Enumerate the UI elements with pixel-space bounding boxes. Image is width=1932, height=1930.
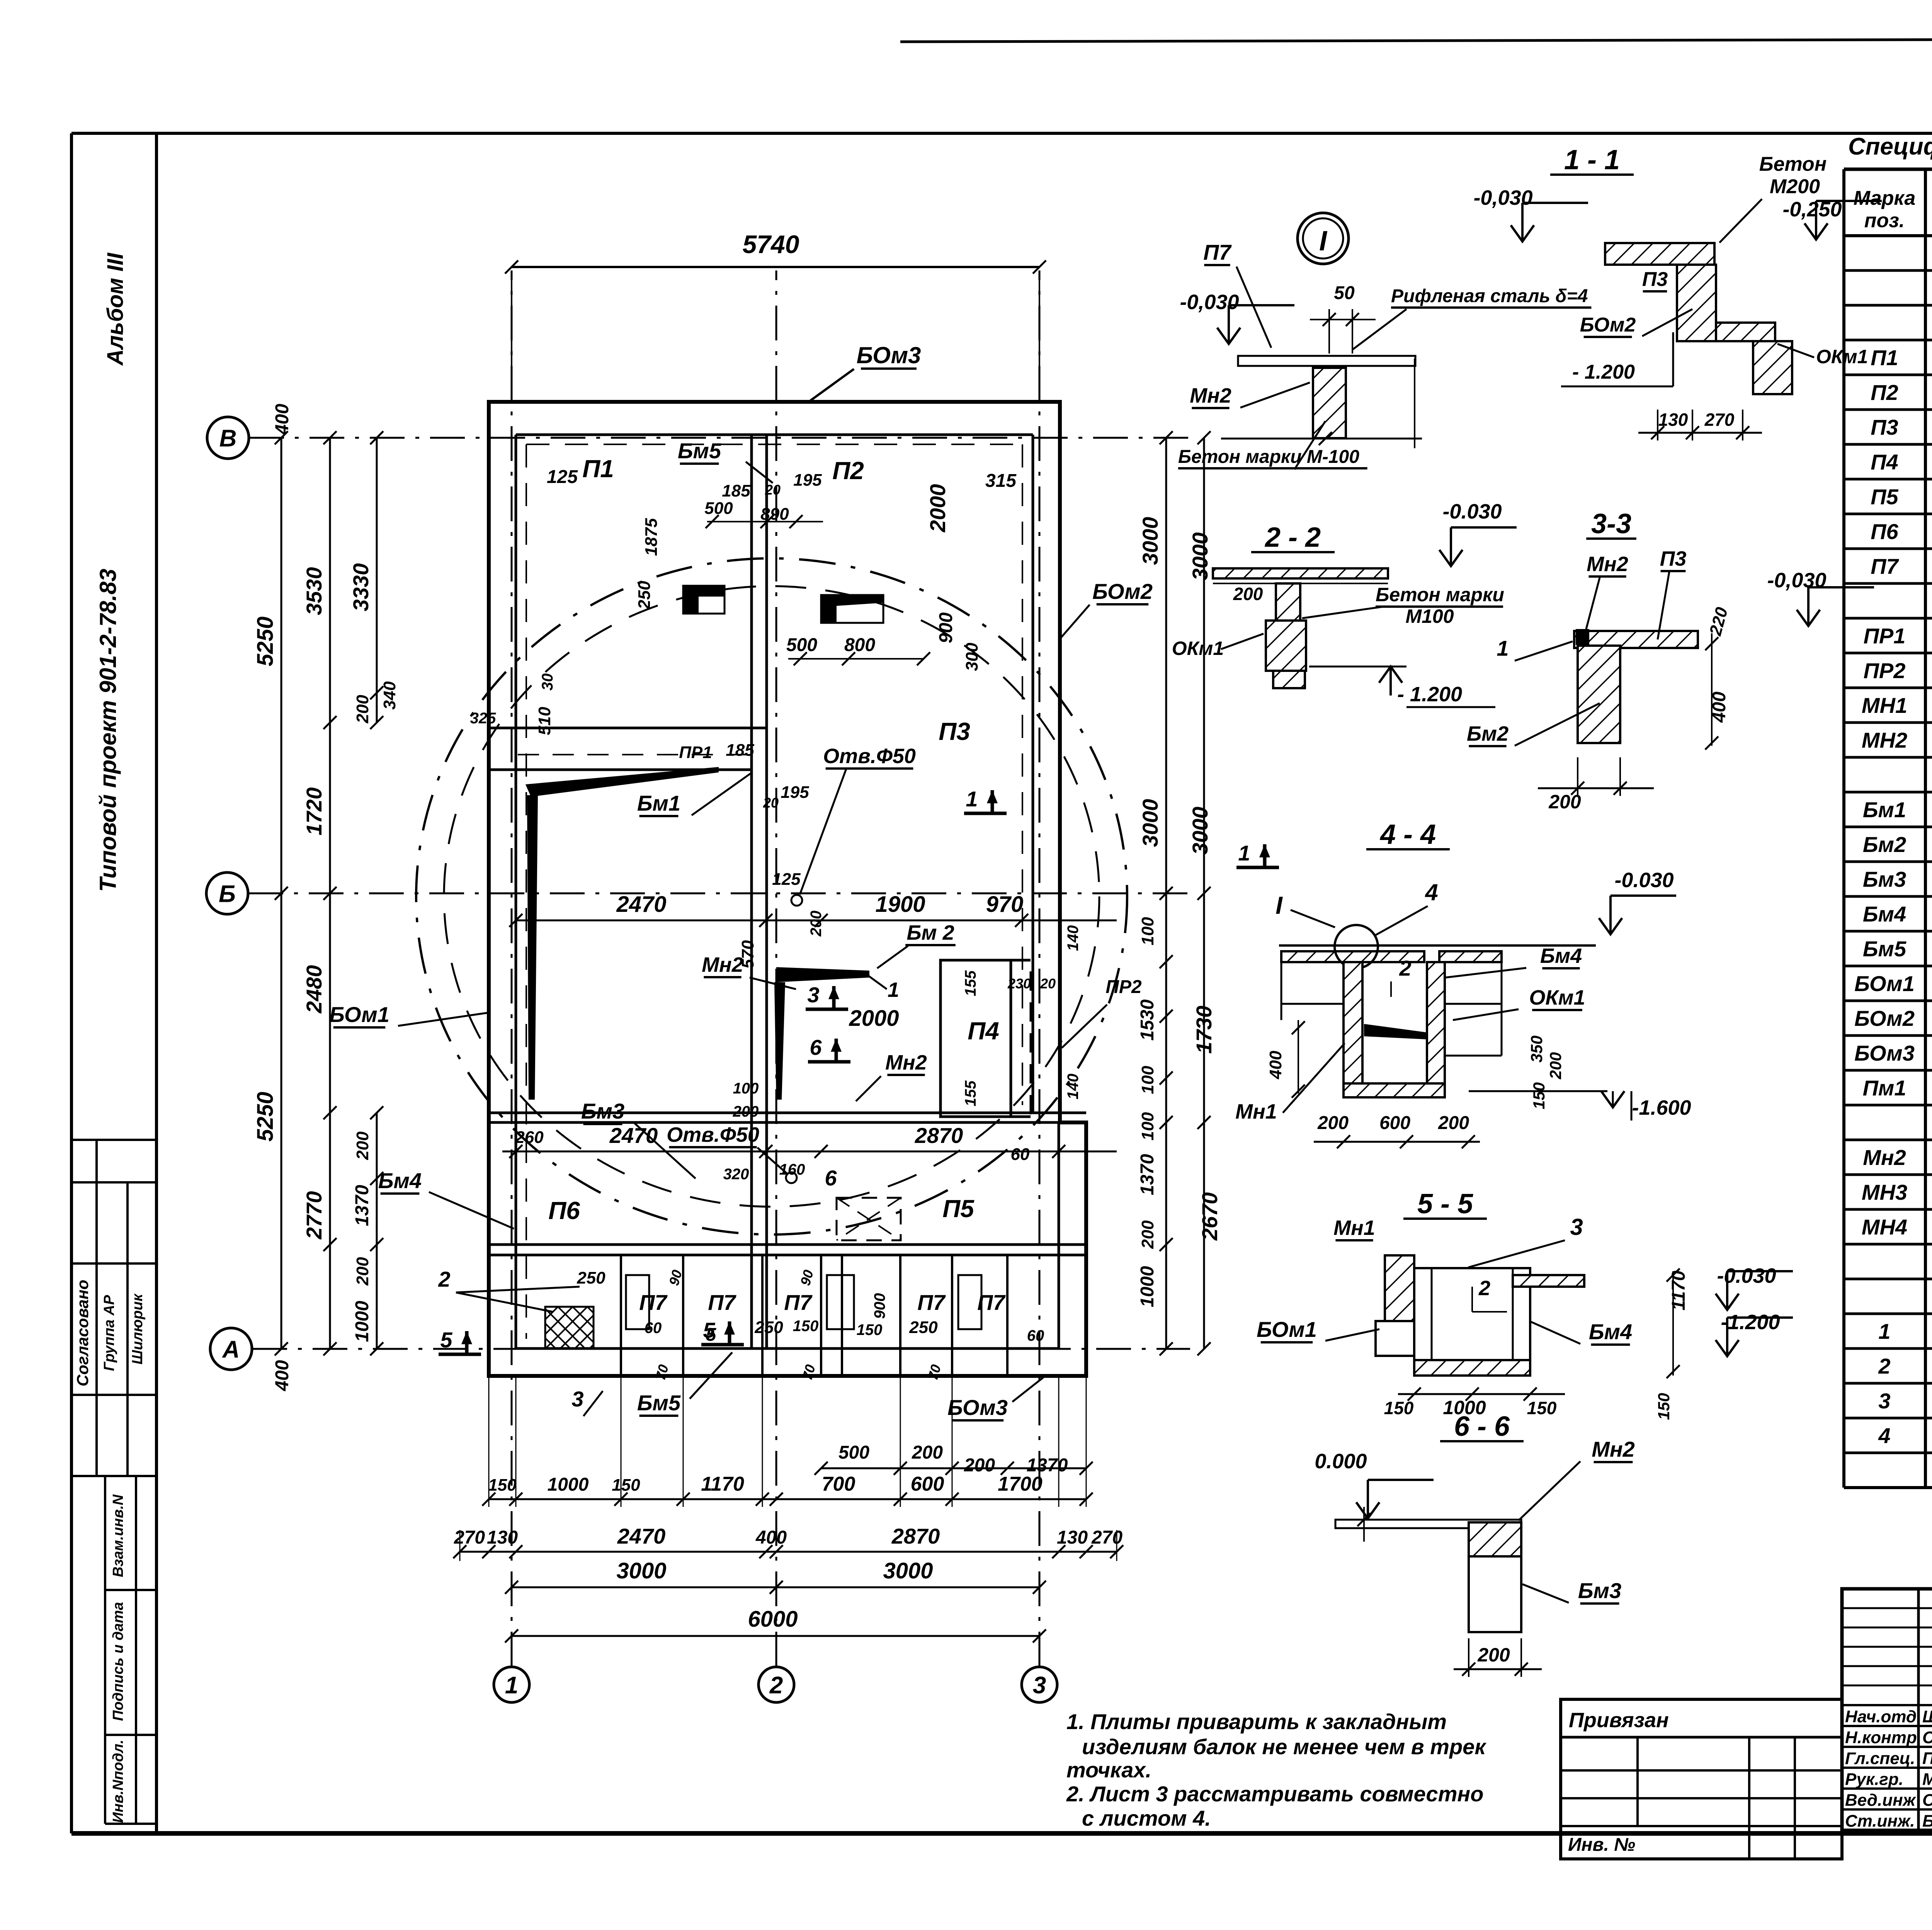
svg-text:350: 350 xyxy=(1527,1036,1546,1063)
svg-text:900: 900 xyxy=(871,1293,888,1319)
small dim line under detail P2 xyxy=(788,658,923,660)
section 6-6 column xyxy=(1469,1556,1521,1632)
outer wall outline xyxy=(489,402,1086,1376)
svg-text:МН2: МН2 xyxy=(1862,728,1907,752)
svg-text:900: 900 xyxy=(936,612,956,643)
svg-text:МН4: МН4 xyxy=(1862,1215,1907,1239)
svg-text:2: 2 xyxy=(438,1267,450,1291)
svg-text:2480: 2480 xyxy=(302,965,326,1014)
svg-text:П7: П7 xyxy=(977,1290,1006,1314)
svg-text:Подпись и дата: Подпись и дата xyxy=(110,1602,126,1721)
svg-text:2: 2 xyxy=(1399,956,1411,980)
svg-text:270: 270 xyxy=(1091,1527,1122,1548)
-1.600 level xyxy=(1469,1090,1607,1092)
svg-text:П4: П4 xyxy=(1871,450,1898,474)
svg-text:Бм4: Бм4 xyxy=(1540,944,1582,968)
svg-text:П2: П2 xyxy=(832,457,864,485)
elevation mark -0,030 xyxy=(1797,610,1820,626)
svg-text:3330: 3330 xyxy=(349,563,373,612)
svg-text:3: 3 xyxy=(1878,1389,1890,1413)
svg-text:200: 200 xyxy=(1138,1220,1157,1249)
solid black beam Bm1 (horizontal wedge) xyxy=(526,767,719,797)
svg-text:Мн2: Мн2 xyxy=(1592,1437,1635,1461)
svg-text:140: 140 xyxy=(1065,925,1082,951)
corridor wall xyxy=(489,1243,1086,1246)
svg-text:БОм3: БОм3 xyxy=(1854,1041,1915,1065)
svg-text:I: I xyxy=(1319,226,1328,257)
svg-text:100: 100 xyxy=(1138,917,1157,945)
svg-text:1370: 1370 xyxy=(352,1185,372,1226)
dims 200 600 200 xyxy=(1314,1141,1480,1143)
axis 2 xyxy=(759,1667,794,1702)
svg-text:500: 500 xyxy=(838,1442,869,1463)
svg-text:200: 200 xyxy=(1548,791,1581,813)
section 4-4 bottom xyxy=(1344,1083,1445,1097)
svg-text:М200: М200 xyxy=(1770,175,1820,198)
wall mid band xyxy=(489,1112,1086,1114)
svg-text:Бетон марки М-100: Бетон марки М-100 xyxy=(1178,447,1359,467)
section 4-4 channel walls xyxy=(1344,962,1362,1083)
svg-text:Бетон: Бетон xyxy=(1759,153,1827,175)
elevation mark -0,030 xyxy=(1511,225,1534,241)
svg-text:970: 970 xyxy=(986,892,1024,917)
svg-text:250: 250 xyxy=(577,1269,605,1287)
svg-text:Бм5: Бм5 xyxy=(678,439,721,463)
svg-text:1875: 1875 xyxy=(642,518,661,556)
svg-text:195: 195 xyxy=(793,471,822,490)
svg-text:60: 60 xyxy=(1027,1327,1044,1344)
svg-text:6 - 6: 6 - 6 xyxy=(1454,1411,1510,1442)
slab of node I xyxy=(1238,356,1415,366)
section 6-6 hatched block xyxy=(1469,1522,1521,1556)
page top scan edge xyxy=(900,39,1932,42)
svg-text:2 - 2: 2 - 2 xyxy=(1264,522,1321,553)
svg-text:П6: П6 xyxy=(1871,519,1898,544)
svg-text:Бм2: Бм2 xyxy=(1467,722,1509,745)
section 2-2 slab xyxy=(1213,568,1388,578)
svg-text:6: 6 xyxy=(810,1035,822,1059)
svg-text:Бм4: Бм4 xyxy=(378,1168,422,1193)
svg-text:поз.: поз. xyxy=(1864,209,1905,232)
svg-text:Бм4: Бм4 xyxy=(1863,902,1906,926)
svg-text:МН1: МН1 xyxy=(1862,693,1907,718)
svg-text:500: 500 xyxy=(704,499,733,518)
svg-text:Мн1: Мн1 xyxy=(1235,1100,1277,1123)
svg-text:60: 60 xyxy=(645,1320,662,1337)
svg-text:П7: П7 xyxy=(917,1290,946,1314)
svg-text:2470: 2470 xyxy=(609,1123,658,1148)
elevation mark -0.030 xyxy=(1439,550,1463,566)
dashed X niche in room P5 xyxy=(837,1198,901,1240)
svg-text:точках.: точках. xyxy=(1066,1758,1151,1782)
cross hatched pit in lower left xyxy=(545,1307,594,1348)
svg-text:-0,030: -0,030 xyxy=(1180,291,1239,314)
svg-text:Бм5: Бм5 xyxy=(637,1391,681,1415)
svg-text:200: 200 xyxy=(964,1455,995,1476)
section 4-4 circle marker xyxy=(1335,925,1378,968)
svg-text:Болотинская: Болотинская xyxy=(1922,1811,1932,1830)
svg-text:100: 100 xyxy=(1138,1066,1157,1094)
svg-text:890: 890 xyxy=(760,505,789,524)
big dashed circles (round station) xyxy=(416,558,1127,1235)
svg-text:4: 4 xyxy=(1878,1423,1890,1448)
svg-text:Бм 2: Бм 2 xyxy=(906,921,954,944)
svg-text:150: 150 xyxy=(1384,1398,1414,1418)
extension lines to bottom dims xyxy=(488,1376,490,1507)
svg-text:П3: П3 xyxy=(1642,268,1668,291)
svg-text:150: 150 xyxy=(488,1476,517,1495)
svg-text:260: 260 xyxy=(515,1128,544,1147)
interior dim line mid corridor xyxy=(502,1151,1117,1153)
svg-text:1. Плиты приварить к заклад: 1. Плиты приварить к закладныт xyxy=(1066,1709,1447,1734)
svg-text:П4: П4 xyxy=(968,1017,999,1045)
svg-text:П5: П5 xyxy=(1871,485,1898,509)
svg-text:600: 600 xyxy=(1379,1113,1410,1133)
svg-text:4: 4 xyxy=(1425,879,1438,905)
svg-text:Спецификация к схеме распол: Спецификация к схеме расположения плит п… xyxy=(1848,133,1932,160)
svg-text:1720: 1720 xyxy=(302,787,326,836)
section 5-5 right slab xyxy=(1513,1275,1584,1287)
svg-text:Рифленая сталь δ=4: Рифленая сталь δ=4 xyxy=(1391,286,1588,306)
svg-text:БОм3: БОм3 xyxy=(947,1395,1008,1420)
svg-text:Вед.инж: Вед.инж xyxy=(1845,1791,1917,1809)
svg-text:1370: 1370 xyxy=(1137,1154,1158,1195)
svg-text:П2: П2 xyxy=(1871,380,1898,405)
svg-text:195: 195 xyxy=(781,783,809,802)
svg-text:П3: П3 xyxy=(1871,415,1898,439)
inner wall lines xyxy=(516,434,1033,436)
svg-text:Альбом III: Альбом III xyxy=(103,252,128,366)
svg-text:А: А xyxy=(222,1336,240,1363)
svg-text:Мн2: Мн2 xyxy=(1863,1145,1906,1170)
svg-text:3000: 3000 xyxy=(1138,799,1162,847)
solid black beam Bm3 (vertical wedge) xyxy=(527,795,538,1100)
svg-text:Бм3: Бм3 xyxy=(1863,867,1906,891)
svg-text:20: 20 xyxy=(763,795,779,811)
black L detail in room P1 (Bm5) xyxy=(683,586,724,614)
svg-text:-0,250: -0,250 xyxy=(1782,198,1842,221)
svg-text:-1.600: -1.600 xyxy=(1632,1096,1691,1119)
svg-text:Сокольская: Сокольская xyxy=(1922,1728,1932,1747)
svg-text:П7: П7 xyxy=(708,1290,736,1314)
svg-text:-0.030: -0.030 xyxy=(1717,1264,1776,1287)
svg-text:- 1.200: - 1.200 xyxy=(1572,361,1635,383)
elevation mark -1.200 xyxy=(1716,1340,1739,1356)
svg-text:5740: 5740 xyxy=(743,230,799,258)
svg-text:5250: 5250 xyxy=(253,616,278,666)
svg-text:Бм5: Бм5 xyxy=(1863,937,1906,961)
svg-text:Нач.отд: Нач.отд xyxy=(1845,1707,1917,1726)
svg-text:6000: 6000 xyxy=(748,1607,798,1632)
svg-text:1: 1 xyxy=(505,1672,518,1699)
elevation mark -0.030 xyxy=(1716,1294,1739,1310)
svg-text:500: 500 xyxy=(786,635,817,655)
svg-text:200: 200 xyxy=(353,695,372,724)
svg-text:2: 2 xyxy=(1478,1277,1490,1300)
svg-text:50: 50 xyxy=(1334,283,1355,303)
section 5-5 left block xyxy=(1385,1255,1414,1321)
svg-text:270: 270 xyxy=(454,1527,485,1548)
svg-text:2870: 2870 xyxy=(915,1123,963,1148)
svg-text:Бм1: Бм1 xyxy=(637,791,680,815)
svg-text:Б: Б xyxy=(219,881,236,907)
svg-text:320: 320 xyxy=(723,1166,749,1183)
svg-text:-0,030: -0,030 xyxy=(1767,569,1826,592)
svg-text:Отв.Ф50: Отв.Ф50 xyxy=(823,745,916,768)
svg-text:Гл.спец.: Гл.спец. xyxy=(1845,1749,1915,1768)
P4 box xyxy=(940,960,1011,1117)
svg-text:400: 400 xyxy=(1266,1051,1285,1080)
svg-text:2670: 2670 xyxy=(1197,1192,1222,1241)
hatched column of node I xyxy=(1313,368,1346,438)
svg-text:200: 200 xyxy=(733,1103,759,1120)
svg-text:изделиям балок не менее че: изделиям балок не менее чем в трек xyxy=(1082,1734,1486,1759)
svg-text:П1: П1 xyxy=(1871,345,1898,370)
svg-text:1530: 1530 xyxy=(1137,999,1158,1041)
svg-text:БОм3: БОм3 xyxy=(857,342,921,368)
svg-text:200: 200 xyxy=(808,911,825,937)
svg-text:БОм1: БОм1 xyxy=(1854,971,1915,996)
svg-text:Инв.Nподл.: Инв.Nподл. xyxy=(110,1740,126,1823)
svg-text:Мн2: Мн2 xyxy=(885,1051,927,1074)
top dimension 5740 xyxy=(512,266,1039,268)
svg-text:ПР1: ПР1 xyxy=(679,743,712,762)
svg-text:200: 200 xyxy=(353,1131,372,1160)
solid black vertical below Bm2 xyxy=(774,982,785,1100)
svg-text:ОКм1: ОКм1 xyxy=(1529,986,1585,1009)
svg-text:с листом 4.: с листом 4. xyxy=(1082,1806,1211,1830)
svg-text:Инв. №: Инв. № xyxy=(1568,1835,1635,1855)
axis B (top) xyxy=(207,417,249,459)
svg-text:60: 60 xyxy=(1011,1145,1030,1164)
svg-text:- 1.200: - 1.200 xyxy=(1397,683,1462,706)
lower P7 room dividers xyxy=(620,1255,622,1376)
svg-text:-1.200: -1.200 xyxy=(1721,1311,1780,1334)
svg-text:185: 185 xyxy=(726,741,754,760)
elevation mark -0.030 xyxy=(1599,918,1622,934)
section 4-4 top level line xyxy=(1279,944,1596,947)
svg-text:В: В xyxy=(219,425,237,452)
elevation mark -0,250 xyxy=(1804,223,1828,240)
svg-text:250: 250 xyxy=(909,1318,938,1337)
svg-text:600: 600 xyxy=(911,1473,944,1495)
svg-text:150: 150 xyxy=(793,1318,819,1335)
svg-text:2870: 2870 xyxy=(891,1524,940,1548)
axis 3 xyxy=(1022,1667,1057,1702)
section 5-5 channel xyxy=(1414,1268,1530,1376)
svg-text:340: 340 xyxy=(380,681,399,710)
svg-text:1: 1 xyxy=(1878,1319,1890,1343)
black wedge inside channel xyxy=(1364,1024,1427,1039)
svg-text:800: 800 xyxy=(844,635,875,655)
svg-text:Пм1: Пм1 xyxy=(1863,1076,1906,1100)
svg-text:БОм2: БОм2 xyxy=(1854,1006,1915,1030)
svg-text:ПР2: ПР2 xyxy=(1864,658,1906,683)
svg-text:300: 300 xyxy=(963,643,981,671)
svg-text:Мн2: Мн2 xyxy=(702,953,743,976)
svg-text:3-3: 3-3 xyxy=(1591,508,1631,539)
svg-text:Мн2: Мн2 xyxy=(1587,553,1628,576)
svg-text:-0.030: -0.030 xyxy=(1614,869,1673,892)
svg-text:Привязан: Привязан xyxy=(1569,1709,1669,1732)
svg-text:П6: П6 xyxy=(548,1197,580,1224)
svg-text:2. Лист 3 рассматривать совм: 2. Лист 3 рассматривать совместно xyxy=(1066,1782,1483,1806)
svg-text:П7: П7 xyxy=(1871,554,1899,578)
svg-text:20: 20 xyxy=(1040,976,1056,991)
svg-text:Бм3: Бм3 xyxy=(581,1099,624,1123)
svg-text:315: 315 xyxy=(985,471,1017,491)
svg-text:2470: 2470 xyxy=(617,1524,666,1548)
svg-text:155: 155 xyxy=(962,970,979,996)
svg-text:200: 200 xyxy=(1546,1052,1565,1080)
axis B (mid) xyxy=(206,872,248,914)
svg-text:Бм4: Бм4 xyxy=(1589,1320,1632,1344)
black L detail in room P2 xyxy=(821,595,883,623)
svg-text:510: 510 xyxy=(535,707,554,735)
svg-text:3: 3 xyxy=(571,1387,583,1411)
axis A xyxy=(210,1328,252,1370)
sheet frame xyxy=(70,133,73,1833)
svg-text:-0,030: -0,030 xyxy=(1473,186,1532,209)
central wall xyxy=(750,435,753,1348)
svg-text:3000: 3000 xyxy=(1188,807,1212,855)
svg-text:Мазалова: Мазалова xyxy=(1922,1770,1932,1789)
interior dim line at axis B xyxy=(516,920,1117,922)
svg-text:4 - 4: 4 - 4 xyxy=(1379,819,1436,850)
small door niches row xyxy=(626,1275,649,1329)
svg-text:Согласовано: Согласовано xyxy=(73,1280,92,1386)
left dim chains xyxy=(281,438,282,1349)
svg-text:200: 200 xyxy=(1317,1113,1349,1133)
svg-text:5: 5 xyxy=(440,1328,452,1352)
svg-text:1700: 1700 xyxy=(998,1473,1043,1495)
svg-text:2: 2 xyxy=(769,1672,783,1699)
svg-text:20: 20 xyxy=(765,482,781,498)
section 2-2 column xyxy=(1276,583,1300,621)
svg-text:Шилюрик: Шилюрик xyxy=(129,1293,146,1364)
section 6-6 slab xyxy=(1335,1520,1521,1528)
svg-text:Группа АР: Группа АР xyxy=(101,1295,117,1371)
svg-text:325: 325 xyxy=(470,710,496,727)
svg-text:2: 2 xyxy=(1878,1354,1890,1378)
svg-text:П3: П3 xyxy=(939,718,970,745)
svg-text:155: 155 xyxy=(962,1080,979,1106)
svg-text:1: 1 xyxy=(888,978,899,1002)
section 4-4 inner lines xyxy=(1281,1003,1344,1005)
svg-text:ПР1: ПР1 xyxy=(1864,624,1906,648)
svg-text:БОм1: БОм1 xyxy=(329,1002,389,1027)
section 4-4 slabs xyxy=(1281,951,1424,962)
svg-text:150: 150 xyxy=(1655,1393,1673,1420)
-1.200 level with up arrow xyxy=(1309,666,1406,668)
svg-text:Отв.Ф50: Отв.Ф50 xyxy=(667,1123,759,1146)
svg-text:I: I xyxy=(1276,891,1283,919)
svg-text:0.000: 0.000 xyxy=(1315,1450,1367,1473)
svg-text:Бетон марки: Бетон марки xyxy=(1376,584,1504,605)
svg-text:30: 30 xyxy=(539,673,556,691)
svg-text:П7: П7 xyxy=(784,1290,813,1314)
bottom dimension chains xyxy=(821,1467,1086,1469)
svg-text:1 - 1: 1 - 1 xyxy=(1564,145,1620,175)
svg-text:1000: 1000 xyxy=(1137,1266,1158,1307)
svg-text:П5: П5 xyxy=(942,1195,975,1223)
privyazan box xyxy=(1561,1699,1842,1859)
svg-text:400: 400 xyxy=(755,1527,787,1548)
svg-text:150: 150 xyxy=(612,1476,640,1495)
title block xyxy=(1842,1589,1932,1830)
svg-text:3: 3 xyxy=(807,983,819,1007)
svg-text:150: 150 xyxy=(1527,1398,1557,1418)
svg-text:130: 130 xyxy=(487,1527,518,1548)
solid black beam Bm2 (horizontal) xyxy=(776,967,869,982)
svg-text:270: 270 xyxy=(1704,410,1735,430)
svg-text:3000: 3000 xyxy=(883,1558,933,1583)
axis 1 xyxy=(494,1667,529,1702)
svg-text:Бм3: Бм3 xyxy=(1578,1578,1621,1603)
svg-text:3530: 3530 xyxy=(302,567,326,616)
svg-text:200: 200 xyxy=(912,1442,943,1463)
svg-text:400: 400 xyxy=(1709,692,1730,723)
svg-text:БОм2: БОм2 xyxy=(1580,314,1636,336)
svg-text:Рук.гр.: Рук.гр. xyxy=(1845,1770,1903,1789)
svg-text:Шейко: Шейко xyxy=(1922,1707,1932,1726)
svg-text:Мн2: Мн2 xyxy=(1190,384,1231,407)
svg-text:БОм2: БОм2 xyxy=(1092,579,1153,604)
svg-text:Однорал: Однорал xyxy=(1922,1791,1932,1809)
svg-text:125: 125 xyxy=(547,467,578,487)
section 1-1 body xyxy=(1605,243,1714,265)
svg-text:1: 1 xyxy=(1238,841,1250,865)
svg-text:1: 1 xyxy=(1497,636,1509,660)
svg-text:2000: 2000 xyxy=(925,484,950,533)
svg-text:200: 200 xyxy=(1477,1644,1510,1666)
svg-text:150: 150 xyxy=(1530,1082,1548,1109)
svg-text:ПР2: ПР2 xyxy=(1105,977,1142,997)
elevation mark 0.000 xyxy=(1356,1502,1379,1518)
svg-text:250: 250 xyxy=(754,1318,783,1337)
svg-text:2470: 2470 xyxy=(616,892,666,917)
elevation mark -0,030 xyxy=(1217,328,1240,344)
svg-text:2770: 2770 xyxy=(302,1191,326,1240)
svg-text:6: 6 xyxy=(825,1166,837,1190)
wall PR1 band xyxy=(518,754,748,755)
svg-text:Ст.инж.: Ст.инж. xyxy=(1845,1811,1915,1830)
svg-text:3: 3 xyxy=(1570,1214,1583,1240)
svg-text:150: 150 xyxy=(857,1321,883,1338)
svg-text:140: 140 xyxy=(1065,1074,1082,1100)
svg-text:1000: 1000 xyxy=(352,1301,372,1342)
svg-text:1: 1 xyxy=(966,787,978,811)
svg-text:3: 3 xyxy=(1033,1672,1046,1699)
dims 130 270 xyxy=(1657,410,1658,440)
svg-text:5: 5 xyxy=(703,1318,715,1342)
svg-text:М100: М100 xyxy=(1405,605,1454,627)
svg-text:Марка: Марка xyxy=(1854,187,1916,209)
svg-text:Постников: Постников xyxy=(1922,1749,1932,1768)
svg-text:230: 230 xyxy=(1007,976,1031,991)
svg-text:П3: П3 xyxy=(1660,547,1687,570)
svg-text:185: 185 xyxy=(722,481,750,500)
svg-text:200: 200 xyxy=(1438,1113,1469,1133)
svg-text:125: 125 xyxy=(772,870,801,889)
svg-text:1170: 1170 xyxy=(701,1473,744,1495)
right interior dim chains xyxy=(1165,438,1167,1349)
section 3-3 slab xyxy=(1574,631,1698,648)
svg-text:Бм2: Бм2 xyxy=(1863,832,1906,857)
svg-text:1900: 1900 xyxy=(875,892,925,917)
svg-text:ОКм1: ОКм1 xyxy=(1172,638,1224,659)
svg-text:130: 130 xyxy=(1658,410,1688,430)
